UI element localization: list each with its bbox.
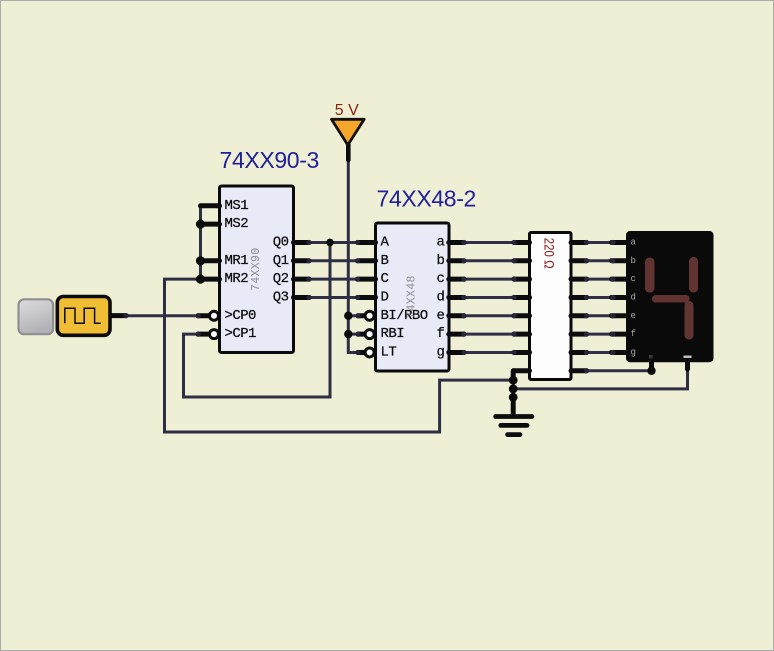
- svg-text:Q3: Q3: [273, 289, 289, 305]
- svg-text:5 V: 5 V: [335, 102, 359, 119]
- svg-text:Q2: Q2: [273, 271, 289, 287]
- svg-text:MR1: MR1: [225, 253, 249, 269]
- svg-text:74XX90-3: 74XX90-3: [220, 147, 320, 173]
- svg-text:b: b: [631, 256, 636, 266]
- svg-text:Q0: Q0: [273, 234, 289, 250]
- svg-text:d: d: [631, 292, 636, 302]
- svg-text:Q1: Q1: [273, 253, 289, 269]
- svg-text:e: e: [436, 308, 444, 324]
- svg-text:d: d: [436, 289, 444, 305]
- svg-text:LT: LT: [381, 344, 397, 360]
- svg-text:220 Ω: 220 Ω: [541, 238, 557, 269]
- svg-text:MS2: MS2: [225, 216, 249, 232]
- svg-text:f: f: [631, 329, 636, 339]
- svg-text:>CP1: >CP1: [225, 326, 257, 342]
- svg-text:g: g: [631, 347, 636, 357]
- svg-text:MS1: MS1: [225, 198, 249, 214]
- svg-text:D: D: [381, 289, 389, 305]
- svg-text:c: c: [631, 274, 636, 284]
- svg-text:MR2: MR2: [225, 271, 249, 287]
- svg-text:b: b: [436, 253, 444, 269]
- svg-text:A: A: [381, 234, 390, 250]
- svg-text:C: C: [381, 271, 389, 287]
- svg-text:74XX48-2: 74XX48-2: [377, 186, 477, 212]
- svg-text:e: e: [631, 311, 636, 321]
- svg-text:c: c: [436, 271, 444, 287]
- svg-text:74XX48: 74XX48: [406, 275, 419, 319]
- svg-text:g: g: [436, 344, 444, 360]
- svg-text:BI/RBO: BI/RBO: [381, 308, 428, 324]
- svg-text:RBI: RBI: [381, 326, 405, 342]
- svg-text:f: f: [436, 326, 444, 342]
- svg-text:B: B: [381, 253, 389, 269]
- svg-text:>CP0: >CP0: [225, 308, 257, 324]
- svg-text:74XX90: 74XX90: [250, 248, 263, 292]
- svg-text:a: a: [436, 234, 444, 250]
